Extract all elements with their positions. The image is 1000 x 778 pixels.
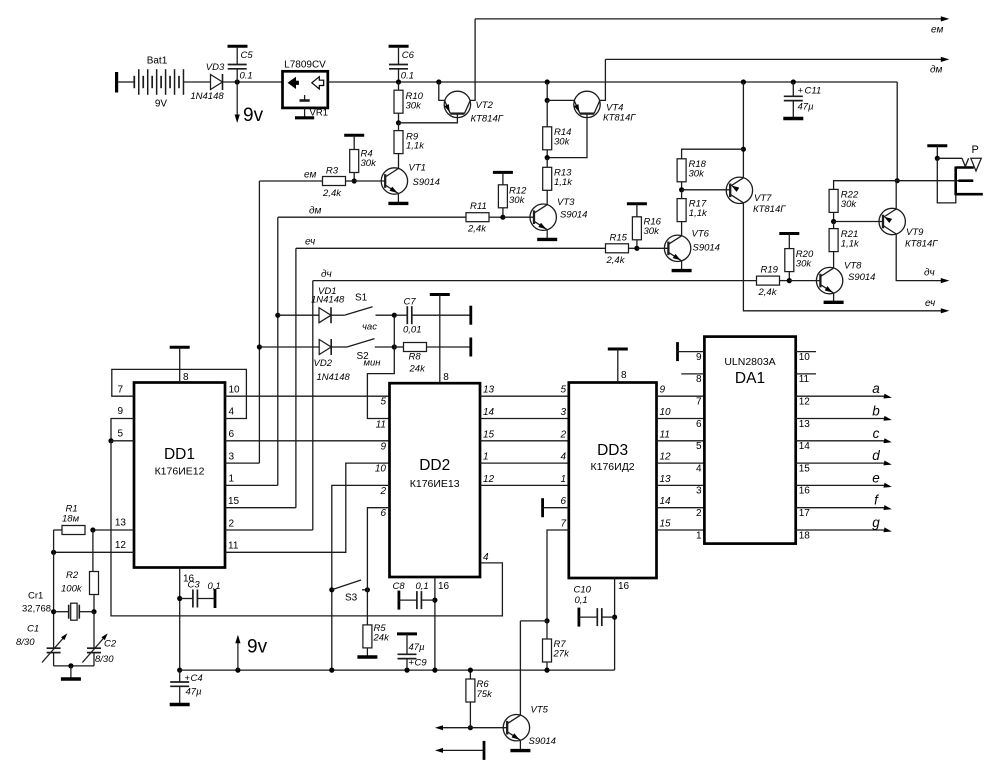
- transistor VT9 KT814G: [879, 208, 938, 249]
- junction piezo node: [935, 156, 940, 161]
- resistor R11 2,4k: [466, 201, 489, 235]
- wire main 9v rail: [328, 81, 897, 83]
- svg-text:S9014: S9014: [693, 243, 720, 254]
- svg-text:6: 6: [696, 419, 702, 430]
- wire battery negative terminal lead: [118, 81, 134, 83]
- svg-text:VT1: VT1: [409, 163, 426, 174]
- wire DA1 pin 15 output d: [796, 462, 887, 464]
- wire node to R14: [546, 100, 548, 127]
- svg-text:17: 17: [799, 508, 811, 519]
- wire dch to R19: [313, 280, 757, 282]
- svg-text:0.1: 0.1: [401, 71, 414, 82]
- svg-text:L7809CV: L7809CV: [284, 60, 326, 71]
- svg-text:30k: 30k: [841, 199, 858, 210]
- arrowhead output b: [883, 416, 891, 421]
- svg-text:47µ: 47µ: [409, 642, 426, 653]
- ground below VT8: [824, 293, 844, 302]
- svg-text:0.1: 0.1: [240, 71, 253, 82]
- svg-text:1N4148: 1N4148: [317, 372, 351, 383]
- svg-text:2,4k: 2,4k: [467, 224, 487, 235]
- wire rail corner down to piezo node: [896, 82, 898, 181]
- svg-text:0,01: 0,01: [403, 325, 422, 336]
- svg-text:11: 11: [799, 374, 810, 385]
- wire node to VT3 base: [503, 216, 534, 218]
- wire DD1 pin 12: [54, 551, 134, 553]
- svg-text:13: 13: [799, 419, 811, 430]
- supply tap above R20: [779, 232, 799, 235]
- terminal before C10: [578, 608, 581, 627]
- junction crystal ground node: [68, 663, 73, 668]
- svg-text:8: 8: [183, 372, 189, 383]
- junction VT7 column on rail: [741, 79, 746, 84]
- svg-text:1: 1: [560, 474, 566, 485]
- wire DA1 pin 18 output g: [796, 529, 887, 531]
- wire DD1 pin 8: [179, 347, 181, 382]
- piezo element P: [956, 167, 983, 196]
- svg-text:4: 4: [560, 452, 566, 463]
- junction R18 tap on VT7 emitter line: [741, 147, 746, 152]
- regulator output arrow symbol: [312, 77, 324, 89]
- svg-text:C8: C8: [393, 581, 406, 592]
- junction R22/R21/VT9 base: [831, 219, 836, 224]
- resistor R13 1,1k: [543, 167, 574, 190]
- wire tap to R16: [636, 204, 638, 218]
- svg-text:ем: ем: [931, 25, 943, 36]
- arrowhead output d: [883, 460, 891, 465]
- svg-text:VT9: VT9: [906, 227, 924, 238]
- wire VT9 collector to dch out: [896, 234, 944, 281]
- supply tap above C9: [397, 632, 417, 635]
- svg-text:8: 8: [696, 374, 702, 385]
- svg-text:32,768: 32,768: [22, 604, 51, 615]
- wire R1 left lead: [54, 529, 62, 531]
- resistor R19 2,4k: [757, 265, 780, 299]
- svg-text:1,1k: 1,1k: [554, 177, 573, 188]
- junction pin12 / R1-C1 column: [51, 550, 56, 555]
- wire VD2 cathode to S2: [331, 346, 347, 348]
- svg-text:5: 5: [696, 441, 702, 452]
- capacitor C6 top bar: [389, 45, 409, 48]
- resistor R18 30k: [677, 159, 707, 182]
- battery Bat1 terminal bar: [115, 72, 118, 93]
- wire DA1 pin 10 stub: [796, 351, 816, 353]
- svg-text:4: 4: [483, 552, 489, 563]
- terminal after C3: [214, 589, 217, 608]
- svg-text:10: 10: [375, 464, 387, 475]
- wire rail to VT4 emitter node: [546, 82, 548, 100]
- svg-text:Cr1: Cr1: [28, 591, 43, 602]
- resistor R10 30k: [394, 90, 424, 113]
- junction VT4 column on rail: [545, 79, 550, 84]
- svg-text:2,4k: 2,4k: [606, 255, 626, 266]
- svg-text:g: g: [872, 515, 880, 530]
- wire VT4 collector to dm line: [600, 59, 606, 100]
- arrowhead em out: [941, 16, 950, 21]
- wire C5 upper lead: [236, 46, 238, 64]
- svg-text:5: 5: [380, 397, 386, 408]
- resistor R17 1,1k: [677, 199, 708, 222]
- svg-text:7: 7: [117, 385, 123, 396]
- resistor R20 30k: [785, 249, 814, 272]
- svg-text:R19: R19: [761, 265, 779, 276]
- junction R6 bottom / VT5 base: [468, 725, 473, 730]
- ground below VT3: [537, 230, 557, 240]
- svg-text:S3: S3: [345, 593, 358, 604]
- junction C11 on rail: [791, 79, 796, 84]
- junction diode output node: [235, 79, 240, 84]
- svg-text:P: P: [972, 144, 979, 156]
- transistor VT7 KT814G: [726, 177, 786, 215]
- wire C2 top lead: [93, 612, 95, 649]
- wire R12 to VT3 base node: [502, 208, 504, 217]
- svg-text:S9014: S9014: [413, 177, 440, 188]
- svg-text:9: 9: [380, 442, 386, 453]
- svg-text:DD1: DD1: [164, 446, 195, 463]
- svg-text:30k: 30k: [554, 137, 571, 148]
- svg-text:1,1k: 1,1k: [841, 239, 860, 250]
- svg-text:9v: 9v: [247, 637, 268, 658]
- svg-text:C5: C5: [241, 50, 254, 61]
- wire em to R3: [259, 180, 322, 182]
- ground below VT5: [510, 740, 530, 750]
- junction C6 / R10 on rail: [396, 79, 401, 84]
- wire DD1 pin5/9 down to DD2 pin 4 line: [111, 441, 502, 616]
- junction C3 node: [177, 596, 182, 601]
- wire DA1 pin 9: [678, 351, 705, 353]
- wire node to R13: [546, 158, 548, 168]
- junction 9v marker on bottom rail: [235, 668, 240, 673]
- wire node to R8: [394, 346, 403, 348]
- svg-text:C7: C7: [404, 297, 417, 308]
- resistor R21 1,1k: [829, 229, 860, 252]
- svg-text:2: 2: [696, 508, 702, 519]
- capacitor C11 47u: [784, 86, 821, 113]
- wire S1 contact to node: [376, 314, 395, 316]
- wire VT2 collector to em line: [470, 19, 475, 101]
- svg-text:ем: ем: [304, 170, 316, 181]
- junction C8 node: [432, 598, 437, 603]
- svg-text:13: 13: [115, 518, 127, 529]
- wire dch net vertical: [312, 281, 314, 530]
- resistor R3 2,4k: [322, 166, 345, 200]
- junction R6 on bottom rail: [468, 668, 473, 673]
- wire R16 to VT6 base node: [636, 240, 638, 249]
- svg-text:3: 3: [229, 452, 235, 463]
- junction R18/R17/VT7 base: [679, 187, 684, 192]
- svg-text:К176ИЕ13: К176ИЕ13: [410, 478, 460, 490]
- wire C6 upper lead: [398, 46, 400, 64]
- wire DD1 pin 9: [111, 419, 134, 441]
- wire VD1 anode: [278, 314, 319, 316]
- wire C7 to terminal: [412, 314, 471, 316]
- svg-text:12: 12: [115, 540, 127, 551]
- wire VT7 collector to ech out: [743, 203, 944, 311]
- supply tap above R4: [344, 134, 364, 137]
- supply tap above DD2 pin 8: [430, 293, 450, 296]
- terminal after R8: [469, 338, 472, 357]
- svg-text:дч: дч: [321, 269, 332, 280]
- wire R14 to node: [546, 150, 548, 158]
- wire DD2 pin 15 to DD3 pin 2: [480, 440, 569, 442]
- resistor R5 24k: [363, 623, 390, 648]
- wire C3 right lead: [197, 598, 215, 600]
- svg-text:1: 1: [483, 452, 489, 463]
- svg-text:2: 2: [379, 486, 386, 497]
- wire VD1 cathode to S1: [331, 314, 344, 316]
- svg-text:КТ814Г: КТ814Г: [603, 113, 636, 124]
- capacitor C7 0,01: [403, 297, 422, 336]
- svg-text:Bat1: Bat1: [147, 56, 168, 67]
- wire DD1 pin 3 to em net: [225, 462, 259, 464]
- svg-text:C9: C9: [415, 658, 428, 669]
- svg-text:11: 11: [228, 541, 239, 552]
- crystal Cr1 32,768: [22, 591, 94, 621]
- wire piezo bottom loop: [937, 158, 956, 203]
- svg-text:10: 10: [799, 352, 811, 363]
- wire em net vertical: [258, 181, 260, 463]
- svg-text:C11: C11: [805, 86, 822, 97]
- svg-text:12: 12: [799, 397, 811, 408]
- wire R19 to VT8 base node: [780, 280, 790, 282]
- wire R11 to VT3 base node: [489, 216, 503, 218]
- wire R20 to VT8 base node: [788, 272, 790, 281]
- supply tap above DD1 pin 8: [170, 346, 190, 349]
- junction VT2 emitter on rail: [436, 79, 441, 84]
- ground below C4: [170, 686, 190, 704]
- junction R1/R2/pin13: [90, 527, 95, 532]
- wire R21 to VT8 collector: [833, 252, 835, 269]
- svg-text:8/30: 8/30: [95, 654, 114, 665]
- wire DD2 pin 12 to DD3 pin 1: [480, 484, 569, 486]
- svg-text:VD3: VD3: [206, 62, 225, 73]
- wire dm to R11: [278, 216, 466, 218]
- svg-text:DA1: DA1: [735, 370, 765, 387]
- junction C10 node: [612, 615, 617, 620]
- resistor R16 30k: [632, 217, 661, 240]
- svg-text:8: 8: [621, 370, 627, 381]
- wire bottom supply rail: [180, 669, 615, 671]
- wire em output line: [475, 18, 944, 20]
- svg-text:75k: 75k: [477, 689, 494, 700]
- resistor R15 2,4k: [606, 233, 629, 267]
- wire DD2 pin 1 to DD3 pin 4: [480, 462, 569, 464]
- junction crystal left node: [51, 609, 56, 614]
- junction R7 on bottom rail: [544, 668, 549, 673]
- svg-text:КТ814Г: КТ814Г: [905, 239, 938, 250]
- wire R9 to VT1 collector: [398, 154, 400, 169]
- wire node to VT7 base: [682, 189, 731, 191]
- junction C4 node on bottom rail: [177, 668, 182, 673]
- wire left crystal column: [53, 530, 55, 648]
- wire tap to R12: [502, 172, 504, 185]
- svg-text:8: 8: [443, 372, 449, 383]
- wire DD3 pin 15 to DA1 pin 1: [657, 529, 705, 531]
- wire DD1 pin 15 to ech net: [225, 507, 296, 509]
- svg-text:6: 6: [229, 429, 235, 440]
- wire DD3 pin 14 to DA1 pin 2: [657, 507, 705, 509]
- resistor R22 30k: [829, 189, 859, 212]
- svg-text:7: 7: [696, 397, 702, 408]
- wire C9 lower lead: [406, 659, 408, 671]
- svg-text:4: 4: [696, 463, 702, 474]
- wire node to R17: [681, 190, 683, 199]
- wire C3 left lead: [180, 598, 193, 600]
- svg-text:5: 5: [117, 429, 123, 440]
- junction S3 contact: [365, 587, 370, 592]
- svg-text:30k: 30k: [509, 195, 526, 206]
- transistor VT1 S9014: [381, 163, 440, 195]
- svg-text:47µ: 47µ: [798, 102, 815, 113]
- wire R2 bottom lead: [93, 595, 95, 612]
- svg-text:S9014: S9014: [560, 210, 587, 221]
- svg-text:+: +: [798, 86, 804, 97]
- svg-text:C3: C3: [188, 580, 201, 591]
- resistor R7 27k: [543, 639, 571, 662]
- transistor VT3 S9014: [530, 197, 587, 230]
- wire ech net vertical: [295, 248, 297, 507]
- wire DD3 pin 11 to DA1 pin 5: [657, 440, 705, 442]
- svg-text:R8: R8: [409, 352, 422, 363]
- wire R22 top link: [834, 181, 898, 190]
- svg-text:C4: C4: [191, 673, 203, 684]
- svg-text:дм: дм: [930, 65, 943, 76]
- arrow seconds output lower: [435, 748, 484, 753]
- wire DD3 pin 8: [617, 349, 619, 383]
- wire DD1 pin 6 to DD2 pin 9: [225, 440, 390, 442]
- svg-text:b: b: [872, 404, 880, 419]
- svg-text:DD2: DD2: [419, 457, 450, 474]
- junction R11/R12/VT3 base: [500, 215, 505, 220]
- svg-text:5: 5: [560, 385, 566, 396]
- svg-text:VD2: VD2: [314, 358, 333, 369]
- wire C11 lower lead: [792, 101, 794, 118]
- svg-text:9: 9: [696, 352, 702, 363]
- IC DD3 K176ID2: [569, 383, 657, 579]
- wire piezo middle electrode: [897, 180, 958, 182]
- wire node to VT6 base: [637, 247, 668, 249]
- svg-text:47µ: 47µ: [186, 687, 203, 698]
- wire R15 to VT6 base node: [629, 247, 637, 249]
- svg-text:VT2: VT2: [476, 100, 494, 111]
- svg-text:1: 1: [229, 474, 235, 485]
- wire R6 bottom lead: [469, 702, 471, 728]
- svg-text:3: 3: [696, 486, 702, 497]
- wire DD2 pin 16 down: [434, 577, 436, 670]
- supply tap above piezo: [927, 144, 947, 147]
- svg-text:27k: 27k: [553, 649, 571, 660]
- svg-text:1N4148: 1N4148: [311, 295, 345, 306]
- wire tap to DD2 pin 8: [439, 295, 441, 384]
- svg-text:1,1k: 1,1k: [689, 208, 708, 219]
- wire DA1 pin 12 output a: [796, 395, 887, 397]
- svg-text:1: 1: [696, 530, 702, 541]
- svg-text:дм: дм: [309, 206, 322, 217]
- junction DD2 pin 16 on bottom rail: [432, 668, 437, 673]
- wire C11 upper lead: [792, 82, 794, 96]
- wire DD1 pin 10 to DD2 pin 5: [225, 395, 390, 397]
- wire diode VD3 to regulator: [223, 81, 283, 83]
- transistor VT8 S9014: [816, 261, 875, 294]
- switch S3: [332, 580, 368, 604]
- wire rail to R10: [398, 82, 400, 92]
- wire DD1 pin 11 to DD2 pin 10: [225, 463, 390, 552]
- svg-text:КТ814Г: КТ814Г: [471, 114, 504, 125]
- arrow seconds output upper: [435, 725, 470, 730]
- wire node to VT1 base: [354, 180, 385, 182]
- wire DD3 pin 6: [543, 507, 569, 509]
- svg-text:R3: R3: [326, 166, 339, 177]
- supply tap above R16: [627, 202, 647, 205]
- junction S3 pivot: [329, 587, 334, 592]
- svg-text:12: 12: [483, 474, 495, 485]
- wire DD1 pin 7 to pin 4 loop: [112, 369, 247, 418]
- svg-text:R11: R11: [470, 201, 487, 212]
- svg-text:C10: C10: [574, 585, 592, 596]
- wire R6 top lead: [469, 670, 471, 679]
- ground below crystal network: [61, 666, 81, 679]
- ground below R5: [357, 648, 377, 657]
- svg-text:2,4k: 2,4k: [758, 287, 778, 298]
- svg-text:16: 16: [618, 581, 630, 592]
- switch S1: [344, 293, 377, 333]
- wire S1-S2 common link: [393, 315, 395, 347]
- junction DD1 pin5/pin9: [108, 438, 113, 443]
- wire R1 to DD1 pin 13: [93, 529, 134, 531]
- svg-text:VT7: VT7: [754, 193, 772, 204]
- junction S2/R8 node: [392, 344, 397, 349]
- svg-text:10: 10: [229, 385, 241, 396]
- wire R2 top lead: [92, 530, 94, 572]
- resistor R9 1,1k: [394, 131, 425, 154]
- svg-text:S9014: S9014: [848, 272, 875, 283]
- wire R7 bottom lead: [546, 662, 548, 670]
- wire DD2 pin 14 to DD3 pin 3: [480, 418, 569, 420]
- wire node to C7: [394, 314, 407, 316]
- svg-text:ULN2803A: ULN2803A: [724, 356, 775, 368]
- svg-text:10: 10: [660, 407, 672, 418]
- wire C2 bottom lead: [93, 653, 95, 666]
- resistor R2 100k: [61, 570, 99, 595]
- svg-text:еч: еч: [305, 237, 315, 248]
- arrowhead output g: [883, 527, 891, 532]
- wire DD1 pin 5: [111, 440, 134, 442]
- arrow 9v supply marker up: [235, 635, 240, 670]
- wire C5 lower lead: [236, 69, 238, 82]
- voltage regulator VR1 L7809CV: [283, 60, 328, 108]
- trimmer capacitor C1 8/30: [16, 624, 67, 663]
- wire S2 node to DD2 pin 11: [367, 347, 394, 419]
- svg-text:VT8: VT8: [844, 261, 862, 272]
- capacitor C8 0,1: [393, 581, 429, 609]
- svg-text:R2: R2: [66, 570, 79, 581]
- wire VT9 emitter up: [895, 181, 897, 209]
- ground below VT1: [388, 194, 408, 204]
- arrowhead dch out: [941, 278, 950, 283]
- svg-text:2: 2: [559, 429, 566, 440]
- wire VT4 emitter lead: [547, 99, 574, 101]
- svg-text:e: e: [872, 470, 880, 485]
- svg-text:11: 11: [660, 429, 670, 440]
- svg-text:15: 15: [228, 496, 240, 507]
- switch S2: [347, 339, 381, 369]
- arrowhead ech out: [941, 308, 950, 313]
- capacitor C10 0,1: [574, 585, 602, 627]
- junction VT4 emitter / R14 top: [545, 98, 550, 103]
- svg-text:S1: S1: [355, 293, 368, 304]
- wire VT5 collector up: [519, 621, 521, 715]
- svg-text:4: 4: [229, 407, 235, 418]
- wire R18 top link: [682, 149, 744, 159]
